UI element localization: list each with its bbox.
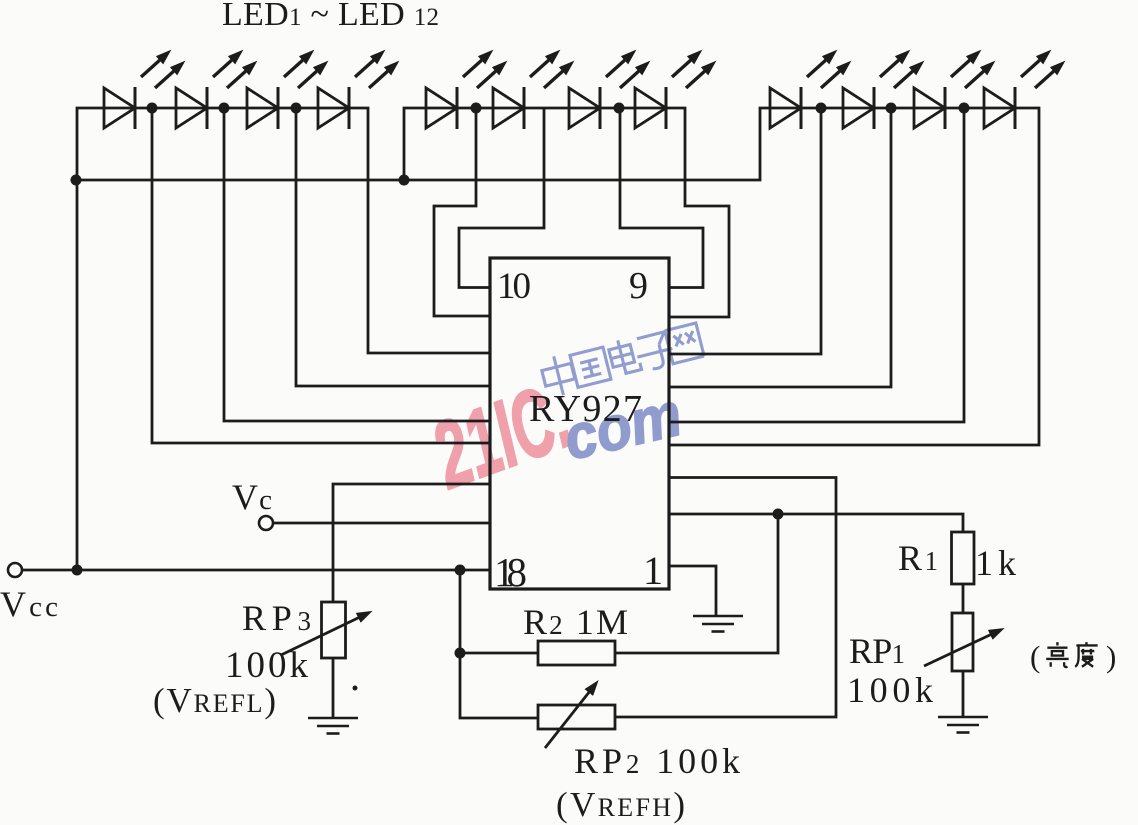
svg-text:R2 1M: R2 1M — [523, 602, 628, 642]
svg-text:10: 10 — [497, 266, 531, 307]
svg-text:9: 9 — [629, 265, 648, 307]
svg-text:18: 18 — [494, 549, 527, 595]
svg-text:LED1 ~ LED 12: LED1 ~ LED 12 — [222, 0, 439, 33]
svg-text:(: ( — [1030, 639, 1040, 674]
svg-text:): ) — [1106, 639, 1116, 674]
svg-text:1: 1 — [643, 548, 663, 593]
svg-text:RY927: RY927 — [529, 388, 642, 430]
